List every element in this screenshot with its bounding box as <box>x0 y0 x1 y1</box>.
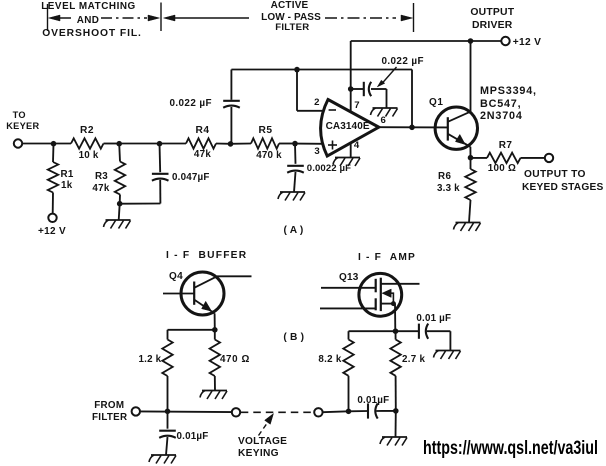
node A1 junction <box>51 141 57 147</box>
pin label 6 <box>381 116 386 126</box>
transistor Q4 <box>181 272 224 315</box>
label 0.01uF (C7) <box>357 396 389 406</box>
ground for C3 <box>373 107 398 109</box>
terminal: +12V below R1 <box>48 214 56 222</box>
capacitor C4 0.0022uF <box>294 144 297 164</box>
wire Q1 collector <box>470 41 472 112</box>
dimension arrow: active low-pass span <box>164 15 176 21</box>
dimension tick right <box>413 3 415 32</box>
resistor R4 <box>186 138 216 148</box>
resistor 8.2k <box>348 331 350 339</box>
label I-F AMP <box>358 253 416 263</box>
node B2 junction (1.2k bottom) <box>165 409 171 415</box>
ground below 470 ohm <box>202 390 227 392</box>
label 1.2k <box>139 355 162 365</box>
dimension arrow: level matching span <box>49 15 61 21</box>
+12V supply rail <box>351 40 502 42</box>
wire Q13 gate 2 <box>320 307 376 309</box>
wire Q4 collector stub <box>217 275 252 277</box>
wire Q4 base stub <box>163 293 194 295</box>
node B5 junction (2.7k bottom) <box>393 408 399 414</box>
label 0.01uF (C6) <box>416 314 451 324</box>
node A5 junction (R4/R5/C2) <box>228 141 234 147</box>
label R3 <box>95 172 108 182</box>
label Q1 <box>429 98 444 108</box>
node A3 junction (0.047uF tap) <box>157 141 163 147</box>
watermark URL text <box>423 439 598 459</box>
op-amp U1 CA3140E <box>321 100 379 157</box>
node B3 junction (Q13 source bias) <box>393 328 399 334</box>
pin label 7 <box>354 101 359 111</box>
wire right keying to 8.2k <box>323 410 349 413</box>
wire bias line <box>349 330 396 332</box>
wire feedback top rail <box>231 69 412 71</box>
label 2.7k <box>402 355 425 365</box>
wire to op-amp pin 3 <box>295 143 323 145</box>
label FILTER <box>275 23 309 33</box>
resistor R6 <box>470 158 472 169</box>
dashed wire voltage keying <box>241 411 314 413</box>
label R2 <box>80 126 94 136</box>
ground below C6 <box>436 350 461 352</box>
resistor R7 <box>471 157 488 159</box>
wire node A2 to cap node <box>119 143 159 145</box>
resistor 1.2k <box>167 330 169 340</box>
label BC547, <box>480 99 521 110</box>
node A11 junction (emitter/R6/R7) <box>468 155 474 161</box>
node B4 junction (8.2k bottom) <box>346 409 352 415</box>
dimension tick middle <box>160 3 162 32</box>
Q13 source and dot <box>381 303 395 305</box>
label R1 <box>61 170 74 180</box>
capacitor C2 0.022uF feedback <box>230 107 232 144</box>
pin label 3 <box>314 147 319 157</box>
wire op-amp output <box>379 126 412 128</box>
resistor 2.7k <box>395 331 397 339</box>
label (B) <box>283 333 304 343</box>
pin label 2 <box>314 98 319 108</box>
label VOLTAGE <box>238 437 287 447</box>
resistor R3 <box>118 144 121 162</box>
terminal: voltage keying right <box>314 408 322 416</box>
node A9 junction (Q1 collector tap) <box>468 38 474 44</box>
label 0.022uF (bypass) <box>382 57 424 67</box>
capacitor C7 0.01uF <box>349 410 369 412</box>
capacitor C3 0.022uF bypass <box>351 88 364 90</box>
label 100 ohm <box>488 164 516 174</box>
label 1k <box>61 181 73 191</box>
terminal: TO KEYER input <box>14 139 22 147</box>
label MPS3394, <box>480 86 537 97</box>
label CA3140E <box>326 122 370 132</box>
capacitor C1 0.047uF <box>159 144 162 173</box>
Q13 substrate arrow <box>382 289 391 297</box>
label FROM FILTER <box>94 401 124 411</box>
label 8.2k <box>318 355 341 365</box>
label TO KEYER <box>13 111 26 120</box>
label KEYING <box>238 449 279 459</box>
label 0.0022uF <box>307 164 351 174</box>
label 0.022uF (feedback) <box>170 99 212 109</box>
label +12V bottom <box>38 227 66 237</box>
wire feedback down to output <box>411 70 413 128</box>
resistor R2 <box>54 143 72 145</box>
ground below R3 <box>106 219 131 221</box>
transistor Q1 <box>435 107 477 149</box>
wire A3 to R4 <box>160 143 187 145</box>
ground below B5 <box>382 436 407 438</box>
label AND <box>77 16 100 26</box>
label OUTPUT TO <box>524 170 586 180</box>
wire A4 to ground <box>119 204 120 220</box>
wire output to Q1 base <box>412 126 448 128</box>
node A10 junction (feedback joins output) <box>409 125 415 131</box>
wire input to node A1 <box>22 143 53 145</box>
wire Q1 emitter <box>469 147 471 158</box>
pin 4 wire and ground <box>350 143 352 158</box>
label OVERSHOOT FIL. <box>42 29 142 39</box>
wire B5 to ground <box>395 411 397 437</box>
node A7 junction (feedback/pin2) <box>294 67 300 73</box>
label I-F BUFFER <box>166 251 247 261</box>
label R4 <box>195 126 209 136</box>
label ACTIVE <box>271 1 309 11</box>
label +12V top <box>513 38 541 48</box>
label KEYED STAGES <box>522 183 603 193</box>
label R7 <box>499 141 513 151</box>
pointer arrow for bypass cap label <box>382 67 397 84</box>
node B1 junction (Q4 emitter) <box>212 327 218 333</box>
label 470k <box>256 151 282 161</box>
node A2 junction <box>116 141 122 147</box>
node A6 junction (pin3 node) <box>292 141 298 147</box>
label 0.01uF (C5) <box>177 432 209 442</box>
label Q13 <box>339 273 359 283</box>
dimension tick left <box>47 4 49 31</box>
terminal: voltage keying left <box>232 408 240 416</box>
op-amp minus input mark <box>329 109 336 111</box>
transistor Q13 dual-gate MOSFET <box>359 273 402 316</box>
wire Q4 emitter <box>214 313 216 329</box>
terminal: +12V top right <box>501 37 509 45</box>
wire Q13 drain stub <box>381 283 420 285</box>
label 0.047uF <box>172 173 210 183</box>
label 47k (R4) <box>194 150 211 160</box>
label 10k <box>79 151 99 161</box>
label LEVEL MATCHING <box>41 2 136 12</box>
label LOW-PASS <box>261 13 321 23</box>
label 47k (R3) <box>92 184 109 194</box>
label (A) <box>283 226 303 236</box>
label 470 ohm <box>220 355 250 365</box>
label OUTPUT DRIVER <box>470 8 514 18</box>
wire pin2 drop <box>296 70 298 111</box>
ground below R6 <box>456 222 481 224</box>
pin label 4 <box>354 141 359 151</box>
label Q4 <box>169 272 183 282</box>
resistor 470 ohm <box>214 330 216 340</box>
terminal: output to keyed stages <box>545 154 553 162</box>
label 3.3k <box>437 184 460 194</box>
label R5 <box>258 126 272 136</box>
wire B1 to 1.2k <box>168 329 215 331</box>
resistor R1 <box>52 144 55 163</box>
ground below C5 <box>151 454 176 456</box>
voltage keying arrow <box>259 421 269 435</box>
wire Q13 gate 1 <box>321 287 376 289</box>
node A4 junction (R3/C1 bottom) <box>117 201 123 207</box>
label 2N3704 <box>480 111 523 122</box>
op-amp plus input mark <box>328 144 337 146</box>
node A8 junction (pin7 bypass tap) <box>348 86 354 92</box>
capacitor C5 0.01uF <box>167 411 169 428</box>
ground below C4 <box>280 191 305 193</box>
capacitor C6 0.01uF <box>396 330 419 332</box>
terminal: FROM FILTER <box>132 407 140 415</box>
pin 7 supply wire <box>350 41 352 112</box>
resistor R5 <box>231 143 252 145</box>
wire from filter line <box>140 410 232 413</box>
label R6 <box>438 172 451 182</box>
